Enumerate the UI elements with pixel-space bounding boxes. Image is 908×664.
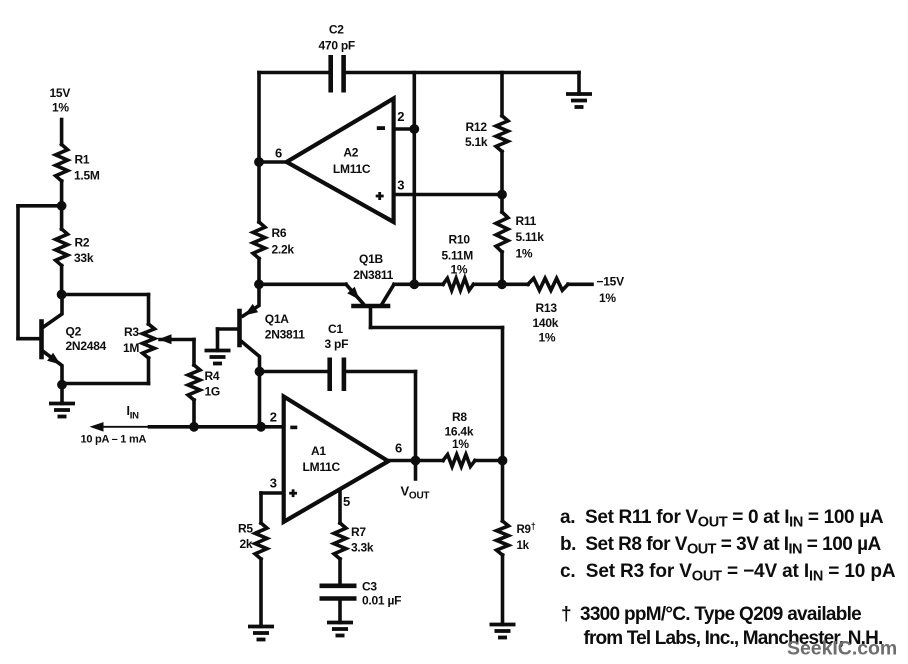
- ground under R5: [248, 625, 274, 629]
- wire wiper to R4: [192, 340, 196, 366]
- wire R7 to C3: [338, 559, 342, 586]
- node R12-R11-pin3 junction: [497, 190, 507, 200]
- resistor R5: [255, 523, 267, 559]
- op-amp A1: [284, 397, 389, 522]
- wire C1 left: [260, 370, 330, 374]
- capacitor C2 right plate: [341, 55, 346, 93]
- svg-text:3: 3: [270, 476, 277, 491]
- svg-text:A1: A1: [311, 444, 326, 458]
- wire collector node to R3 top: [62, 293, 149, 297]
- svg-text:LM11C: LM11C: [333, 162, 371, 176]
- svg-text:1%: 1%: [451, 263, 468, 277]
- capacitor C3 top plate: [320, 583, 357, 588]
- wire R3 bottom stub: [147, 358, 151, 384]
- transistor Q2 emitter: [42, 351, 62, 386]
- resistor R4: [188, 365, 200, 400]
- node summing junction: [254, 279, 264, 289]
- svg-text:1G: 1G: [205, 385, 221, 399]
- op-amp A2: [287, 99, 394, 223]
- node Q1A collector junction: [255, 367, 265, 377]
- svg-text:1%: 1%: [452, 437, 469, 451]
- capacitor C1 right plate: [342, 358, 347, 392]
- resistor R1: [56, 145, 68, 182]
- node A2 pin2 junction: [409, 124, 419, 134]
- svg-text:1%: 1%: [599, 291, 616, 305]
- svg-text:5.11k: 5.11k: [516, 230, 545, 244]
- svg-text:6: 6: [275, 146, 282, 161]
- wire A2 pin 2: [394, 127, 415, 131]
- wire junction to left rail: [18, 204, 62, 208]
- transistor Q2 collector: [42, 295, 62, 329]
- wire C1 right: [344, 370, 416, 374]
- wire R5 to ground: [259, 559, 263, 627]
- svg-text:2N2484: 2N2484: [66, 339, 107, 353]
- svg-text:R2: R2: [75, 236, 90, 250]
- wire 15V stub: [60, 120, 64, 145]
- svg-text:Q1A: Q1A: [265, 312, 290, 326]
- svg-text:2: 2: [397, 109, 404, 124]
- wire Q1B base down: [369, 306, 373, 328]
- svg-text:15V: 15V: [50, 86, 71, 100]
- transistor Q1A emitter: [243, 284, 259, 316]
- svg-text:c. Set R3 for VOUT = −4V at I: c. Set R3 for VOUT = −4V at IIN = 10 pA: [560, 561, 896, 585]
- svg-text:1%: 1%: [539, 331, 556, 345]
- transistor Q1A collector: [241, 341, 260, 372]
- svg-text:R5: R5: [238, 522, 253, 536]
- wire A2 left rail to R6: [257, 162, 261, 222]
- svg-text:R10: R10: [449, 233, 471, 247]
- resistor R2: [56, 229, 68, 266]
- node C1 feedback junction: [411, 456, 421, 466]
- resistor R10: [443, 278, 474, 290]
- svg-text:R6: R6: [272, 226, 287, 240]
- svg-text:−15V: −15V: [597, 275, 625, 289]
- svg-text:Q2: Q2: [66, 325, 82, 339]
- svg-text:R9†: R9†: [517, 521, 536, 536]
- svg-text:SeekIC.com: SeekIC.com: [787, 638, 897, 660]
- wire R1 to R2: [60, 181, 64, 229]
- svg-text:R11: R11: [516, 214, 537, 228]
- wire A1 pin 5 stub: [338, 490, 342, 524]
- svg-text:5: 5: [343, 494, 350, 509]
- wire Q1A base lead: [218, 327, 240, 331]
- wire input line: [150, 425, 284, 429]
- wire Q1B base to divider: [371, 326, 503, 330]
- wire R2 to collector node: [60, 266, 64, 295]
- svg-text:a. Set R11 for VOUT = 0 at II: a. Set R11 for VOUT = 0 at IIN = 100 µA: [560, 507, 884, 531]
- svg-text:1%: 1%: [516, 247, 533, 261]
- resistor R9: [497, 521, 509, 555]
- node A2 output junction: [254, 157, 264, 167]
- wire top left to C2: [259, 71, 331, 75]
- node Q2 emitter junction: [57, 380, 67, 390]
- svg-text:† 3300 ppM/°C. Type Q209 avai: † 3300 ppM/°C. Type Q209 available: [561, 604, 862, 625]
- wire A1 output: [388, 459, 443, 463]
- svg-text:R8: R8: [452, 410, 467, 424]
- svg-text:1%: 1%: [52, 101, 69, 115]
- wire node to R9: [501, 461, 505, 522]
- node R1-R2 junction: [57, 201, 67, 211]
- resistor R12: [496, 116, 508, 152]
- svg-text:5.11M: 5.11M: [442, 249, 474, 263]
- svg-text:2.2k: 2.2k: [272, 243, 295, 257]
- wire emitter line right: [394, 282, 443, 286]
- node right rail to emitter line: [409, 279, 419, 289]
- wire R3 top stub: [147, 295, 151, 325]
- svg-text:b. Set R8 for VOUT = 3V at II: b. Set R8 for VOUT = 3V at IIN = 100 µA: [560, 534, 882, 558]
- svg-text:1k: 1k: [517, 540, 530, 552]
- svg-text:LM11C: LM11C: [303, 460, 341, 474]
- node Q2 collector junction: [57, 290, 67, 300]
- svg-text:C2: C2: [329, 23, 344, 37]
- wire R11 to node: [500, 252, 504, 284]
- resistor R11: [496, 212, 508, 252]
- transistor Q1A base bar: [237, 311, 242, 345]
- svg-text:2k: 2k: [240, 537, 253, 551]
- wire pin3 to R5: [259, 493, 263, 523]
- wire left rail to Q2 base: [18, 337, 40, 341]
- svg-text:33k: 33k: [74, 251, 94, 265]
- svg-text:3 pF: 3 pF: [325, 337, 349, 351]
- ground under C3: [327, 621, 353, 625]
- transistor Q1B emitter: [346, 284, 363, 303]
- wire left rail down: [16, 206, 20, 339]
- wire emitter line left: [259, 282, 346, 286]
- wire C1 to output: [414, 372, 418, 461]
- wire VOUT stub: [414, 461, 418, 480]
- svg-text:Q1B: Q1B: [359, 252, 384, 266]
- ground top right: [566, 92, 592, 96]
- wire divider rail down: [501, 328, 505, 461]
- svg-text:470 pF: 470 pF: [319, 39, 356, 53]
- svg-text:VOUT: VOUT: [401, 484, 430, 502]
- wire A2 right rail: [412, 73, 416, 285]
- svg-text:R1: R1: [75, 153, 90, 167]
- svg-text:2N3811: 2N3811: [265, 328, 305, 342]
- svg-text:R13: R13: [536, 301, 558, 315]
- wire R9 to ground: [501, 555, 505, 625]
- ground at Q1A base: [205, 349, 231, 353]
- node R8-R9 junction: [498, 456, 508, 466]
- svg-text:IIN: IIN: [127, 404, 140, 422]
- svg-text:R12: R12: [466, 120, 488, 134]
- transistor Q1B base bar: [354, 304, 389, 309]
- wire R12 to node: [500, 152, 504, 195]
- wire R8 to divider node: [475, 459, 503, 463]
- wire A2 pin 3: [394, 193, 502, 197]
- wire node to R13: [502, 282, 528, 286]
- transistor Q1B collector: [382, 284, 394, 304]
- svg-text:10 pA – 1 mA: 10 pA – 1 mA: [81, 434, 147, 446]
- svg-text:1M: 1M: [123, 341, 139, 355]
- svg-text:R3: R3: [124, 325, 139, 339]
- wire A2 left rail upper: [257, 73, 261, 163]
- input current arrow: [93, 426, 148, 428]
- wire C3 to ground: [338, 599, 342, 623]
- wire R13 to -15V: [568, 282, 592, 286]
- transistor Q2 base bar: [39, 322, 44, 358]
- capacitor C3 bottom plate: [320, 596, 357, 601]
- svg-text:0.01 µF: 0.01 µF: [362, 594, 401, 608]
- svg-text:R7: R7: [351, 525, 366, 539]
- svg-text:6: 6: [395, 441, 402, 456]
- svg-text:1.5M: 1.5M: [74, 169, 100, 183]
- wire A1 pin 3: [261, 491, 284, 495]
- resistor R13: [528, 278, 568, 290]
- wire R11 top stub: [500, 195, 504, 213]
- svg-text:140k: 140k: [533, 316, 559, 330]
- wire Q1A base ground stub: [216, 329, 220, 351]
- wiper arrow of R3: [159, 334, 172, 344]
- wire top-right ground stub: [577, 73, 581, 95]
- wire Q1A collector to pin2 node: [258, 372, 262, 427]
- wire R6 to emitter node: [257, 259, 261, 285]
- svg-text:2N3811: 2N3811: [353, 268, 393, 282]
- ground under R9: [490, 623, 516, 627]
- svg-text:3.3k: 3.3k: [351, 541, 374, 555]
- wire C2 to top right ground: [344, 71, 579, 75]
- wire Q2 emitter to ground: [60, 385, 64, 404]
- svg-text:5.1k: 5.1k: [465, 135, 488, 149]
- resistor R6: [253, 222, 265, 259]
- node input to A1 pin2: [256, 422, 266, 432]
- ground under Q2: [49, 402, 75, 406]
- capacitor C2 left plate: [328, 55, 333, 93]
- wire R12 top stub: [500, 73, 504, 116]
- svg-text:C1: C1: [328, 322, 343, 336]
- svg-text:R4: R4: [205, 369, 220, 383]
- wire R10 to node: [474, 282, 503, 286]
- resistor R7: [334, 523, 346, 559]
- wire A2 output pin 6: [259, 160, 287, 164]
- resistor R3 potentiometer: [143, 324, 155, 358]
- capacitor C1 left plate: [327, 358, 332, 392]
- resistor R8: [443, 455, 475, 467]
- svg-text:A2: A2: [343, 146, 358, 160]
- wire R4 to input line: [192, 400, 196, 427]
- wire R3 bottom to emitter node: [62, 382, 149, 386]
- svg-text:C3: C3: [362, 580, 377, 594]
- svg-text:2: 2: [270, 410, 277, 425]
- svg-text:3: 3: [397, 178, 404, 193]
- node R4-input junction: [189, 422, 199, 432]
- node R10-R11-R13 junction: [497, 279, 507, 289]
